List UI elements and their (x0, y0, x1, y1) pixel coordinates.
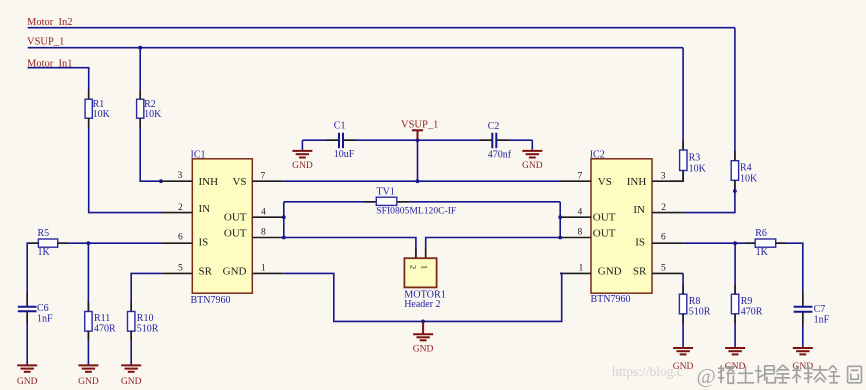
wire R5 right to IS IC1 (58, 242, 162, 244)
pin 5 SR IC2 (633, 264, 683, 278)
svg-text:C6: C6 (37, 303, 49, 314)
svg-text:OUT: OUT (593, 228, 616, 240)
junction VS bus (416, 179, 420, 183)
pin 4 OUT IC1 (224, 207, 283, 223)
wire R11 leads (87, 302, 89, 341)
wire R6 right to C7 (776, 243, 803, 306)
ground GND under R11 (78, 365, 99, 387)
resistor R2 (137, 99, 163, 120)
svg-text:7: 7 (261, 171, 266, 181)
resistor R11 (85, 312, 116, 335)
resistor R1 (85, 99, 111, 120)
svg-text:1nF: 1nF (37, 314, 53, 325)
pin 2 IN IC1 (161, 203, 210, 215)
pin 6 IS IC1 (161, 233, 208, 249)
svg-text:VS: VS (598, 176, 612, 188)
wire R9 bottom to GND (734, 314, 736, 348)
wire TV1 right lead (397, 201, 408, 203)
connector MOTOR1 (404, 258, 446, 310)
svg-text:INH: INH (199, 176, 219, 188)
wire VSUP_1 vertical to R3 (682, 48, 684, 149)
junction left OUT4 (282, 215, 286, 219)
svg-text:R8: R8 (689, 296, 701, 307)
resistor R8 (679, 294, 710, 317)
wire IS junction down to R11 (87, 243, 89, 311)
svg-text:3: 3 (178, 171, 183, 181)
svg-text:Motor In2: Motor In2 (27, 17, 73, 28)
svg-text:1: 1 (420, 265, 430, 269)
svg-text:R4: R4 (740, 162, 752, 173)
svg-text:GND: GND (121, 377, 142, 387)
pin 2 IN IC2 (633, 203, 683, 216)
svg-text:OUT: OUT (224, 228, 247, 240)
svg-text:GND: GND (78, 377, 99, 387)
svg-text:510R: 510R (689, 306, 711, 317)
wire C6 leads (26, 292, 28, 324)
ground GND under R8 (673, 348, 694, 372)
wire R3 top lead (682, 141, 684, 151)
ground GND under R9 (725, 348, 746, 372)
svg-text:OUT: OUT (593, 212, 616, 224)
wire VSUP to R2 top (139, 48, 141, 99)
svg-text:@: @ (697, 364, 716, 388)
svg-text:Header 2: Header 2 (404, 299, 440, 310)
svg-text:1: 1 (261, 264, 266, 274)
wire R8 bottom to GND (682, 314, 684, 348)
pin 7 VS IC2 (560, 171, 612, 188)
wire SR IC1 to R10 (131, 273, 161, 311)
svg-text:8: 8 (261, 228, 266, 238)
svg-text:6: 6 (661, 233, 666, 243)
svg-text:VSUP_1: VSUP_1 (27, 37, 64, 48)
svg-text:10K: 10K (93, 109, 111, 120)
svg-text:TV1: TV1 (377, 187, 395, 198)
wire R3 bottom to INH (682, 172, 684, 182)
svg-text:GND: GND (223, 266, 247, 278)
capacitor C6 (18, 303, 53, 324)
ground GND under C7 (793, 348, 814, 372)
ground GND under C2 (522, 151, 543, 171)
svg-text:GND: GND (17, 377, 38, 387)
pin 1 GND IC1 (223, 264, 284, 278)
wire R4 bottom lead (734, 180, 736, 189)
wire R3 bottom lead (670, 171, 683, 182)
wire TV1 left lead (365, 201, 377, 203)
svg-text:IN: IN (633, 204, 645, 216)
svg-text:C7: C7 (814, 304, 826, 315)
svg-text:4: 4 (578, 207, 583, 217)
wire VS bus IC1 to IC2 (283, 180, 560, 182)
svg-text:6: 6 (178, 233, 183, 243)
svg-text:VS: VS (232, 176, 246, 188)
pin 3 INH IC1 (161, 171, 218, 188)
junction right OUT4 (558, 215, 562, 219)
svg-text:8: 8 (578, 228, 583, 238)
wire IS IC2 to R6 (683, 242, 755, 244)
junction C1 C2 VSUP (416, 138, 420, 142)
svg-text:470nf: 470nf (488, 149, 512, 160)
wire R11 bottom to GND (87, 331, 89, 365)
op-amp IC1 BTN7960 body (191, 149, 253, 306)
svg-text:SR: SR (199, 266, 213, 278)
junction GND bus (421, 320, 425, 324)
svg-text:510R: 510R (137, 324, 159, 335)
svg-text:10K: 10K (144, 109, 162, 120)
svg-text:10K: 10K (740, 173, 758, 184)
svg-text:OUT: OUT (224, 212, 247, 224)
wire C1 to C2 rail (302, 139, 338, 141)
resistor R3 (680, 150, 707, 175)
wire TV1 rail (284, 201, 377, 203)
wire R8 leads (682, 285, 684, 323)
svg-text:GND: GND (522, 161, 543, 171)
ground GND under R10 (121, 365, 142, 387)
resistor R4 (731, 161, 758, 185)
wire R5 left to C6 (27, 243, 38, 306)
wire R2 bottom to INH pin (140, 118, 161, 181)
svg-text:470R: 470R (741, 306, 763, 317)
svg-text:R9: R9 (741, 296, 753, 307)
wire R10 leads (130, 302, 132, 341)
resistor R5 (38, 228, 58, 258)
wire R10 bottom to GND (130, 331, 132, 365)
svg-text:GND: GND (292, 161, 313, 171)
wire Motor In2 horizontal (28, 27, 735, 29)
wire black stub into MOTOR1 pin2 (415, 248, 417, 259)
pin 8 OUT IC1 (224, 228, 283, 240)
wire R1 top lead (88, 90, 90, 99)
svg-text:3: 3 (661, 171, 666, 181)
transistor TV1 body (376, 187, 456, 217)
svg-text:1: 1 (579, 264, 584, 274)
svg-text:470R: 470R (94, 324, 116, 335)
resistor R10 (128, 312, 159, 335)
capacitor C2 (488, 121, 512, 161)
pin 7 VS IC1 (232, 171, 283, 188)
pin 8 OUT IC2 (560, 228, 616, 240)
wire R2 bottom lead (139, 118, 141, 128)
resistor R6 (755, 228, 776, 258)
svg-text:IC2: IC2 (590, 149, 605, 160)
junction INH pin end (159, 179, 163, 183)
wire motor rail left (284, 238, 416, 259)
svg-text:5: 5 (661, 264, 666, 274)
svg-text:C1: C1 (334, 121, 346, 132)
svg-text:BTN7960: BTN7960 (191, 295, 231, 306)
wire R1 bottom to IN pin (89, 118, 162, 212)
svg-text:R5: R5 (38, 228, 50, 239)
resistor R9 (731, 294, 762, 317)
svg-text:IC1: IC1 (191, 149, 206, 160)
wire Motor In1 (28, 68, 89, 99)
wire Motor In2 vertical to R4 (734, 28, 736, 161)
wire C1 left to GND stub (301, 140, 303, 150)
ground GND under C6 (17, 365, 38, 387)
wire VSUP vertical drop (417, 131, 419, 181)
pin 6 IS IC2 (635, 233, 683, 249)
wire C2 leads (480, 139, 509, 141)
svg-text:R10: R10 (137, 313, 154, 324)
svg-text:SFI0805ML120C-IF: SFI0805ML120C-IF (376, 205, 456, 216)
svg-text:7: 7 (578, 171, 583, 181)
pin 3 INH IC2 (627, 171, 683, 188)
svg-text:SR: SR (633, 266, 647, 278)
wire R4 top lead (734, 151, 736, 161)
wire C1 leads (327, 139, 356, 141)
junction below R4 (733, 189, 737, 193)
wire R5 leads (29, 242, 68, 244)
svg-text:https://blog.c: https://blog.c (612, 364, 683, 379)
svg-text:R3: R3 (689, 152, 701, 163)
wire C7 leads (802, 293, 804, 325)
svg-text:1nF: 1nF (814, 315, 830, 326)
junction left OUT8 (282, 236, 286, 240)
svg-text:1K: 1K (756, 247, 769, 258)
wire motor rail right (426, 238, 561, 259)
svg-text:IS: IS (199, 236, 209, 248)
svg-text:5: 5 (178, 264, 183, 274)
svg-text:2: 2 (178, 203, 183, 213)
wire left OUT vertical (283, 202, 285, 238)
svg-text:GND: GND (598, 266, 622, 278)
pin 5 SR IC1 (161, 264, 212, 278)
wire VSUP_1 horizontal (28, 47, 683, 49)
svg-text:10K: 10K (689, 164, 707, 175)
ground GND under C1 (292, 151, 313, 171)
svg-text:4: 4 (261, 207, 266, 217)
op-amp IC2 BTN7960 body (590, 149, 652, 304)
power port VSUP_1 top (401, 120, 438, 140)
capacitor C1 (334, 121, 355, 161)
wire R2 top lead (139, 90, 141, 99)
svg-text:2: 2 (409, 265, 419, 269)
capacitor C7 (794, 304, 830, 325)
wire right OUT vertical (559, 202, 561, 238)
junction IS R11 (87, 241, 91, 245)
wire C2 right to GND stub (531, 140, 533, 150)
svg-text:GND: GND (413, 344, 434, 354)
svg-text:R6: R6 (755, 228, 767, 239)
wire R6 leads (746, 242, 786, 244)
svg-text:R11: R11 (94, 313, 110, 324)
svg-text:IN: IN (199, 203, 211, 215)
wire R9 leads (734, 285, 736, 323)
wire C7 bottom to GND (802, 312, 804, 347)
wire GND bus from IC1 pin1 (283, 273, 561, 321)
wire SR IC2 to R8 (682, 273, 684, 294)
wire IS junction down to R9 (734, 243, 736, 294)
svg-text:2: 2 (661, 203, 666, 213)
wire R1 bottom lead (88, 118, 90, 128)
svg-text:1K: 1K (38, 247, 51, 258)
svg-text:BTN7960: BTN7960 (591, 294, 631, 305)
svg-text:INH: INH (627, 176, 647, 188)
junction VSUP_1 / R2 (138, 46, 142, 50)
wire black stub into MOTOR1 pin1 (425, 248, 427, 259)
svg-text:10uF: 10uF (334, 149, 355, 160)
pin 1 GND IC2 (560, 264, 622, 278)
svg-text:VSUP_1: VSUP_1 (401, 120, 438, 131)
pin 4 OUT IC2 (560, 207, 616, 223)
wire C6 bottom to GND (26, 312, 28, 365)
svg-text:IS: IS (635, 236, 645, 248)
svg-text:C2: C2 (488, 121, 500, 132)
junction IS R9 (733, 241, 737, 245)
wire R4 bottom to IN IC2 (683, 180, 735, 212)
ground GND center bottom (413, 321, 434, 354)
junction right OUT8 (558, 236, 562, 240)
watermark CJK glyph blocks (718, 365, 861, 384)
